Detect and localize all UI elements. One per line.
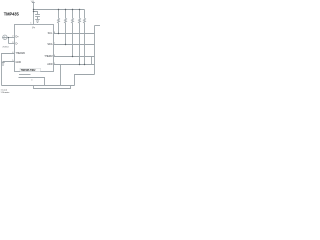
svg-text:SCL: SCL [48,32,53,35]
wire SDA [54,44,95,46]
wire right bus vertical [94,26,96,75]
wire base-collector tie [8,38,10,44]
node THERM2-R4 junction [79,64,80,65]
supply VDD bar [32,2,35,4]
svg-text:VDD: VDD [31,1,34,3]
svg-text:1 Remote: 1 Remote [1,91,11,94]
transistor Q1 2N3904 [3,35,7,39]
resistor R2 [65,10,67,45]
node rail-R3 junction [72,9,73,10]
wire bottom bus 2 [34,86,71,89]
wire D- [9,43,15,45]
node THERM2-R5 junction [84,64,85,65]
wire bottom wrap [75,75,95,86]
wire aux vertical [91,57,93,65]
wire supply rail [34,9,85,11]
wire under-box line B [19,78,45,86]
wire V+ vertical to U1 top pin [33,3,35,25]
svg-text:D+: D+ [16,35,20,38]
svg-text:TMP435-T0D2: TMP435-T0D2 [21,69,36,72]
resistor R1 [58,10,60,34]
svg-text:THERM: THERM [44,56,52,58]
svg-text:GND: GND [16,61,22,64]
node rail-R4 junction [79,9,80,10]
resistor R4 [79,10,81,65]
resistor R5 [84,10,86,65]
wire THERM2 drop [60,65,62,86]
wire THERM2 right [54,64,95,66]
svg-text:2N3904: 2N3904 [2,46,8,48]
node SCL junction [58,33,59,34]
wire THERM [54,56,95,58]
wire under-box line A [19,74,31,76]
svg-text:4: 4 [31,79,33,81]
wire GND pin [3,62,15,63]
ground (capacitor) [35,20,40,23]
node V+ rail junction [33,9,34,10]
node Q1 base-collector tie [8,37,9,38]
node capacitor stub junction [33,11,34,12]
svg-text:THERM2: THERM2 [16,53,26,55]
node THERM junction [72,56,73,57]
svg-text:ADD: ADD [47,63,52,66]
wire top-right exit [95,25,101,27]
part label box U1 [20,68,40,72]
wire bottom bus 1 [2,85,75,87]
wire SCL [54,33,95,35]
svg-text:D-: D- [16,42,19,45]
wire THERM2 left pin to bottom bus [2,54,15,86]
node rail-R2 junction [65,9,66,10]
wire D+ [2,37,14,39]
node rail-R1 junction [58,9,59,10]
IC U1 TMP435 box [15,25,54,72]
svg-text:SDA: SDA [47,43,52,46]
node SDA junction [65,44,66,45]
capacitor C1 [35,15,40,20]
svg-text:V+: V+ [32,26,36,29]
svg-text:TMP435: TMP435 [4,11,20,16]
wire capacitor stub [34,12,38,15]
ground (GND pin) [1,63,4,66]
resistor R3 [72,10,74,57]
